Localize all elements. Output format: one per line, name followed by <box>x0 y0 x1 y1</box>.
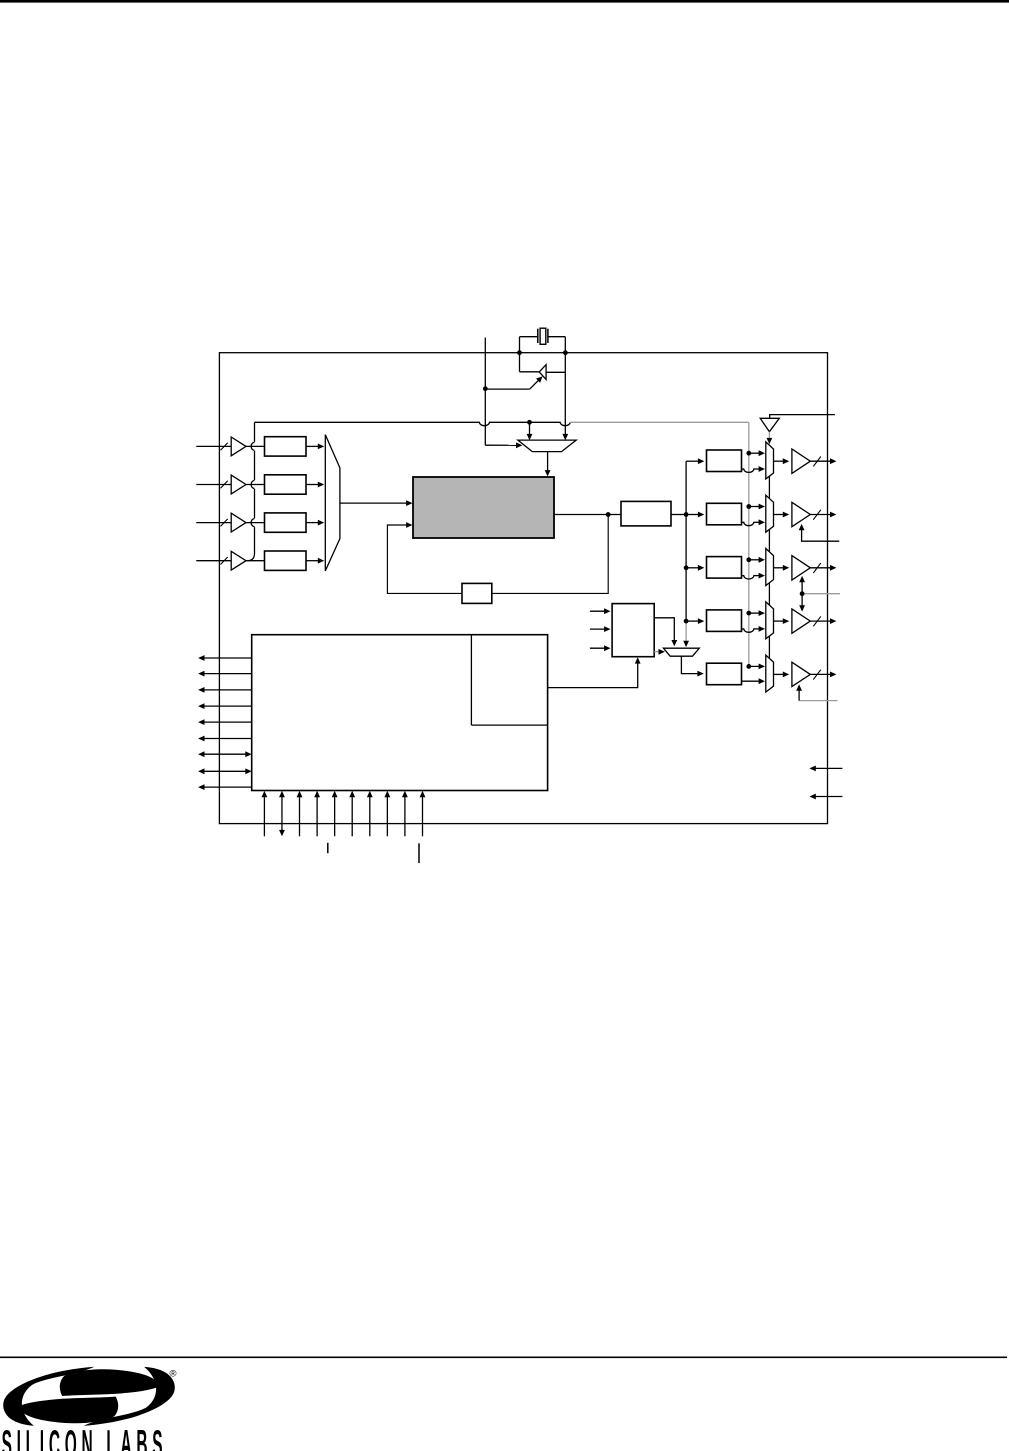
node: B2/B3 control junction <box>800 591 805 596</box>
output driver B1 <box>792 502 810 526</box>
wire: distribution to divider R1 <box>686 512 704 518</box>
output divider R2 <box>707 557 742 579</box>
pin P9 wire <box>402 791 408 837</box>
wire: mux M0 to driver <box>774 458 790 464</box>
driver B3 slash <box>813 616 821 626</box>
wire: mux cascade 0 <box>767 476 773 515</box>
wire: feedback down <box>492 515 608 594</box>
wire: divider R3 to mux <box>742 626 766 632</box>
svg-text:SILICON LABS: SILICON LABS <box>2 1423 163 1451</box>
pin P3 wire <box>297 791 303 837</box>
wire: bypass to mux row 1 <box>749 504 765 510</box>
wire: buffer A2 to divider <box>246 484 265 486</box>
wire: divider R4 to mux <box>742 678 766 684</box>
output driver B3 <box>792 609 810 633</box>
input pin IN4 wire <box>196 560 231 562</box>
input divider P4 <box>265 551 307 570</box>
wire: distribution to divider R2 <box>686 565 704 571</box>
wire: distribution to divider R3 <box>686 618 704 624</box>
wire: bypass to clock mux <box>527 422 533 440</box>
wire: mux cascade 2 <box>767 583 773 622</box>
node: bypass tap row 1 <box>746 504 751 509</box>
input buffer A3 <box>231 513 246 532</box>
input pin IN3 wire <box>196 522 231 524</box>
input divider P1 <box>265 437 307 456</box>
wire: divider P4 to input mux <box>306 558 324 564</box>
wire: mux M1 to driver <box>774 512 790 518</box>
pin CLKIN wire (drivers B2/B3) <box>799 576 840 612</box>
wire: status out to mux M8 select <box>654 649 665 655</box>
wire: bypass to mux row 0 <box>749 450 765 456</box>
wire: divider P3 to input mux <box>306 520 324 526</box>
wire: bypass tap vertical <box>247 422 254 560</box>
wire: divider R0 to mux <box>742 466 766 472</box>
chip outer border <box>219 353 827 824</box>
input pin IN1 wire <box>196 445 231 447</box>
wire: mux cascade 1 <box>767 530 773 569</box>
pin control wire (driver B4) <box>796 684 837 700</box>
node: bypass tap row 0 <box>746 451 751 456</box>
pin OEB wire <box>770 415 835 419</box>
node: clock distribution junction <box>684 512 689 517</box>
clock-select mux M6 <box>518 440 576 452</box>
wire: buffer A3 to divider <box>246 522 265 524</box>
wire: NVM to status block <box>548 657 641 687</box>
pin SCL wire <box>809 794 842 800</box>
wire: status out to mux M8 top <box>654 618 677 647</box>
page top rule <box>0 0 1009 3</box>
wire: mux M2 to driver <box>774 565 790 571</box>
driver B4 slash <box>813 670 821 680</box>
wire: feedback return <box>387 522 462 593</box>
wire: PLL output <box>554 514 621 516</box>
wire: XA lead loop <box>520 337 566 372</box>
crystal Y1 <box>538 328 548 344</box>
status input arrow 2 <box>590 626 611 632</box>
output driver B0 <box>792 449 810 473</box>
input IN2 slash <box>221 481 228 489</box>
wire: mux M8 to divider R4 <box>681 656 703 676</box>
pin SDA wire <box>809 766 842 772</box>
wire: XB line to clock mux <box>562 337 568 441</box>
pin P1 wire <box>262 791 268 837</box>
node on XA branch <box>483 386 488 391</box>
output driver B4 <box>792 662 810 686</box>
output mux M2 <box>766 549 774 586</box>
pin CLK4 wire <box>810 672 836 678</box>
input buffer A2 <box>231 475 246 494</box>
node XB junction <box>563 350 568 355</box>
status input arrow 1 <box>590 608 611 614</box>
tick mark 1 <box>327 843 329 853</box>
OEB buffer G2 <box>760 418 779 431</box>
output mux M1 <box>766 495 774 532</box>
output divider R4 <box>707 663 742 685</box>
wire: mux M4 to driver <box>774 672 790 678</box>
wire: divider R1 to mux <box>742 519 766 525</box>
logo registered mark <box>170 1369 177 1380</box>
pin P5 wire <box>332 791 338 837</box>
Silicon Labs logo swirl <box>3 1367 175 1426</box>
control block U3 (register file) <box>252 635 548 791</box>
output divider R3 <box>707 610 742 632</box>
input mux M7 <box>325 435 340 571</box>
output mux M3 <box>766 602 774 639</box>
input divider P3 <box>265 513 307 532</box>
pin P6 wire <box>349 791 355 837</box>
wire: input mux to PLL <box>340 500 413 506</box>
NVM block U4 (inner) <box>471 635 547 725</box>
feedback divider FB <box>462 583 492 603</box>
pin CLK2 wire <box>810 565 836 571</box>
output mux M0 <box>766 442 774 479</box>
oscillator input wire <box>546 371 565 373</box>
input IN4 slash <box>221 557 228 565</box>
svg-text:®: ® <box>170 1369 177 1380</box>
node XA junction <box>517 350 522 355</box>
driver B0 slash <box>813 457 821 467</box>
node: bypass tap <box>527 420 532 425</box>
node: PLL output junction <box>606 512 611 517</box>
wire: mux M3 to driver <box>774 618 790 624</box>
wire: divider P1 to input mux <box>306 444 324 450</box>
pin P7 wire <box>367 791 373 837</box>
driver B2 slash <box>813 563 821 573</box>
pin CLK3 wire <box>810 618 836 624</box>
wire: XA branch vertical <box>485 338 522 449</box>
oscillator control arrow <box>485 374 544 389</box>
pin GPIO3 wire <box>198 687 252 693</box>
status block U5 <box>612 604 654 657</box>
pin GPIO8 wire (bidirectional) <box>198 768 252 774</box>
pin GPIO5 wire <box>198 719 252 725</box>
wire: distribution vertical <box>683 458 704 647</box>
status input arrow 3 <box>590 645 611 651</box>
wire: bypass to mux row 4 <box>749 664 765 670</box>
pin CLK0 wire <box>810 458 836 464</box>
VCO divider block U2 <box>621 501 671 526</box>
output driver B2 <box>792 556 810 580</box>
pin GPIO9 wire <box>198 784 252 790</box>
input buffer A4 <box>231 551 246 570</box>
node: bypass tap row 3 <box>746 611 751 616</box>
wire: mux cascade 3 <box>767 636 773 675</box>
wire: bypass bus horizontal <box>255 422 749 425</box>
input IN3 slash <box>221 519 228 527</box>
wire: buffer A4 to divider <box>246 560 265 562</box>
pin GPIO2 wire <box>198 671 252 677</box>
wire: buffer A1 to divider <box>246 445 265 447</box>
PLL block U1 <box>413 477 554 538</box>
node: distribution tap R2 <box>684 565 689 570</box>
tick mark 2 <box>418 843 420 863</box>
pin SSC wire (driver B1) <box>799 524 840 541</box>
input buffer A1 <box>231 437 246 456</box>
pin P8 wire <box>384 791 390 837</box>
wire: U2 output <box>671 514 686 516</box>
wire: divider R2 to mux <box>742 573 766 579</box>
node: bypass tap row 4 <box>746 664 751 669</box>
pin GPIO1 wire <box>198 655 252 661</box>
wire: bypass to mux row 2 <box>749 557 765 563</box>
oscillator amp G1 <box>539 365 546 380</box>
pin P4 wire <box>314 791 320 837</box>
node: bypass tap row 2 <box>746 557 751 562</box>
pin P2 wire (bidirectional) <box>279 791 285 837</box>
node: distribution tap R3 <box>684 619 689 624</box>
pin P10 wire <box>420 791 426 837</box>
input divider P2 <box>265 475 307 494</box>
input IN1 slash <box>221 443 228 451</box>
pin GPIO6 wire <box>198 736 252 742</box>
wire: bypass column vertical <box>748 422 750 666</box>
wire: mux M6 to PLL <box>545 452 551 477</box>
footer rule <box>0 1357 1007 1359</box>
wire: divider P2 to input mux <box>306 482 324 488</box>
output mux M4 <box>766 655 774 692</box>
mux M8 <box>663 648 699 656</box>
logo wordmark SILICON LABS <box>2 1423 163 1451</box>
pin GPIO4 wire <box>198 703 252 709</box>
oscillator output wire <box>520 371 540 373</box>
output divider R0 <box>707 450 742 472</box>
pin GPIO7 wire (bidirectional) <box>198 751 252 757</box>
pin CLK1 wire <box>810 512 836 518</box>
driver B1 slash <box>813 510 821 520</box>
output divider R1 <box>707 503 742 525</box>
wire: bypass to mux row 3 <box>749 610 765 616</box>
input pin IN2 wire <box>196 484 231 486</box>
wire: OEB to mux chain <box>767 432 773 445</box>
